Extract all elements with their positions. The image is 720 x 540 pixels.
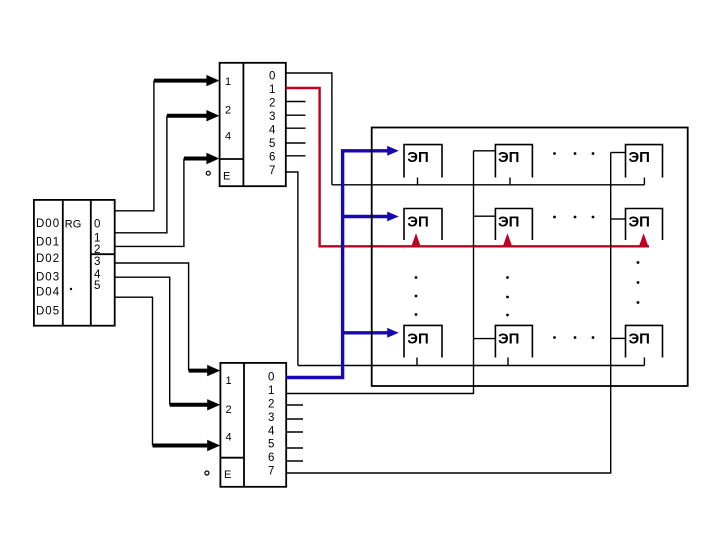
- svg-text:ЭП: ЭП: [629, 214, 650, 231]
- DC1 out3 stub: [286, 114, 306, 116]
- memory cell EP row3 col2: [495, 325, 532, 357]
- svg-text:3: 3: [94, 256, 100, 268]
- svg-text:ЭП: ЭП: [629, 149, 650, 166]
- svg-text:2: 2: [268, 399, 274, 411]
- DC2 out3 stub: [286, 418, 303, 420]
- wire RG out4 to DC2 input 2: [115, 277, 170, 405]
- vertical ellipsis col3: [637, 261, 640, 304]
- svg-text:1: 1: [225, 76, 231, 88]
- blue wire DC2 out0 column select: [286, 151, 390, 378]
- wire RG out2 to DC1 input 4: [115, 159, 184, 247]
- svg-text:ЭП: ЭП: [498, 331, 519, 348]
- vertical ellipsis col2: [506, 276, 509, 316]
- cell row3 col2 bottom stub: [507, 358, 509, 366]
- DC1 enable inversion circle: [206, 171, 210, 175]
- blue arrowhead row1: [387, 146, 399, 156]
- bold arrow into DC1 input 1: [154, 75, 220, 86]
- row line 3: [298, 365, 645, 367]
- memory cell EP row1 col1: [404, 145, 442, 178]
- register RG body: [34, 200, 115, 326]
- cell row1 col1 bottom stub: [417, 178, 419, 185]
- DC2 out2 stub: [286, 404, 303, 406]
- red arrowhead into cell row2 col3: [639, 233, 649, 247]
- cell row1 col3 left connector: [611, 152, 626, 154]
- cell row1 col2 bottom stub: [509, 178, 511, 185]
- svg-text:2: 2: [269, 98, 275, 110]
- wire DC2 out1 to column line 2: [286, 151, 473, 394]
- cell row3 col3 left connector: [611, 337, 626, 339]
- cell row3 col1 bottom stub: [416, 358, 418, 366]
- svg-text:5: 5: [269, 138, 275, 150]
- cell row3 col3 bottom stub: [643, 358, 645, 366]
- DC1 out4 stub: [286, 127, 306, 129]
- svg-text:4: 4: [225, 131, 231, 143]
- svg-text:RG: RG: [65, 219, 82, 231]
- row line 1: [332, 184, 645, 186]
- svg-text:6: 6: [268, 452, 274, 464]
- svg-text:E: E: [224, 469, 231, 481]
- DC1 out5 stub: [286, 142, 306, 144]
- horizontal ellipsis row1: [553, 152, 594, 155]
- svg-text:7: 7: [268, 466, 274, 478]
- svg-text:5: 5: [94, 280, 100, 292]
- svg-text:D05: D05: [36, 306, 60, 318]
- svg-text:4: 4: [268, 425, 275, 437]
- bold arrow into DC2 input 1: [189, 365, 221, 376]
- cell row1 col3 bottom stub: [643, 178, 645, 185]
- svg-text:0: 0: [268, 372, 274, 384]
- svg-text:2: 2: [226, 404, 232, 416]
- svg-text:D01: D01: [36, 237, 60, 249]
- DC1 out2 stub: [286, 101, 306, 103]
- wire RG out0 to DC1 input 1: [115, 81, 154, 211]
- memory cell EP row1 col3: [626, 145, 663, 178]
- svg-text:3: 3: [268, 412, 274, 424]
- svg-text:1: 1: [269, 84, 275, 96]
- cell row2 col3 left connector: [611, 218, 626, 220]
- horizontal ellipsis row3: [553, 336, 594, 339]
- svg-text:ЭП: ЭП: [407, 149, 428, 166]
- memory cell EP row1 col2: [495, 145, 532, 178]
- bold arrow into DC1 input 2: [167, 110, 220, 121]
- svg-text:4: 4: [269, 125, 276, 137]
- memory cell EP row2 col2: [495, 209, 532, 241]
- cell row3 col2 left connector: [474, 338, 496, 340]
- DC2 out5 stub: [286, 447, 303, 449]
- memory cell EP row3 col3: [626, 325, 663, 357]
- blue branch row3: [343, 331, 391, 334]
- wire RG out3 to DC2 input 1: [115, 263, 189, 371]
- red wire DC1 out1 to row line 2: [286, 88, 649, 246]
- decoder DC1 body: [220, 63, 286, 186]
- bold arrow into DC2 input 2: [170, 399, 221, 410]
- svg-text:D02: D02: [36, 253, 60, 265]
- cell row1 col2 left connector: [474, 150, 496, 152]
- svg-text:7: 7: [269, 165, 275, 177]
- wire DC2 out7 to column line 3: [286, 153, 611, 474]
- DC2 out4 stub: [286, 431, 303, 433]
- svg-text:ЭП: ЭП: [498, 149, 519, 166]
- decoder DC2 body: [220, 363, 286, 487]
- wire DC1 out0 to row line 1: [286, 73, 332, 185]
- memory cell EP row2 col1: [404, 209, 442, 241]
- svg-text:D04: D04: [36, 287, 60, 299]
- wire DC1 out7 to row line 3: [286, 172, 298, 366]
- svg-text:1: 1: [226, 375, 232, 387]
- DC2 out6 stub: [286, 460, 303, 462]
- svg-text:ЭП: ЭП: [407, 331, 428, 348]
- blue arrowhead row3: [387, 328, 399, 338]
- svg-text:2: 2: [94, 244, 100, 256]
- svg-text:4: 4: [226, 431, 232, 443]
- svg-text:D03: D03: [36, 272, 60, 284]
- memory cell EP row3 col1: [404, 325, 442, 357]
- svg-text:ЭП: ЭП: [407, 214, 428, 231]
- svg-text:0: 0: [269, 71, 275, 83]
- DC1 out6 stub: [286, 155, 306, 157]
- svg-text:6: 6: [269, 152, 275, 164]
- red arrowhead into cell row2 col1: [411, 233, 421, 247]
- horizontal ellipsis row2: [553, 216, 594, 219]
- DC2 enable inversion circle: [205, 471, 209, 475]
- RG ellipsis dot: [70, 288, 72, 290]
- vertical ellipsis col1: [415, 276, 418, 316]
- blue arrowhead row2: [387, 212, 399, 222]
- svg-text:E: E: [223, 171, 230, 183]
- svg-text:ЭП: ЭП: [498, 214, 519, 231]
- wire RG out1 to DC1 input 2: [115, 116, 167, 233]
- bold arrow into DC1 input 4: [184, 153, 220, 164]
- svg-text:3: 3: [269, 111, 275, 123]
- memory cell EP row2 col3: [626, 209, 663, 241]
- blue branch row2: [343, 215, 391, 218]
- bold arrow into DC2 input 4: [153, 440, 221, 451]
- wire RG out5 to DC2 input 4: [115, 297, 153, 445]
- memory matrix box: [372, 128, 688, 387]
- svg-text:5: 5: [268, 439, 274, 451]
- svg-text:ЭП: ЭП: [629, 331, 650, 348]
- cell row2 col2 left connector: [474, 215, 496, 217]
- svg-text:0: 0: [94, 219, 100, 231]
- red arrowhead into cell row2 col2: [502, 233, 512, 247]
- svg-text:1: 1: [268, 385, 274, 397]
- svg-text:2: 2: [225, 105, 231, 117]
- svg-text:D00: D00: [36, 218, 60, 230]
